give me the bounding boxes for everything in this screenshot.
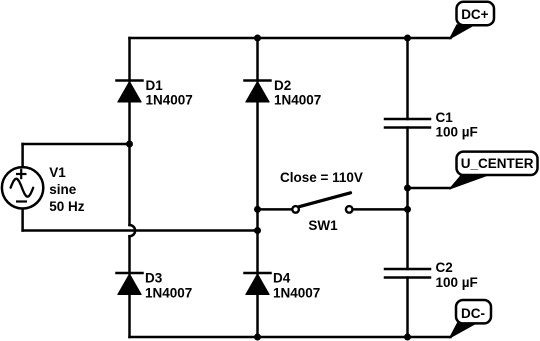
svg-text:50 Hz: 50 Hz: [49, 199, 85, 214]
svg-text:U_CENTER: U_CENTER: [461, 156, 534, 171]
svg-text:Close = 110V: Close = 110V: [280, 170, 363, 185]
svg-text:D4: D4: [273, 271, 291, 286]
svg-text:D3: D3: [145, 271, 163, 286]
svg-text:D2: D2: [274, 78, 291, 93]
svg-text:100 µF: 100 µF: [436, 275, 478, 290]
svg-text:SW1: SW1: [308, 218, 338, 233]
svg-text:DC+: DC+: [461, 7, 488, 22]
svg-text:sine: sine: [49, 182, 77, 197]
svg-text:1N4007: 1N4007: [274, 93, 321, 108]
svg-text:C2: C2: [436, 260, 453, 275]
svg-text:1N4007: 1N4007: [146, 93, 193, 108]
svg-text:V1: V1: [49, 165, 66, 180]
svg-text:100 µF: 100 µF: [436, 124, 478, 139]
svg-text:1N4007: 1N4007: [145, 285, 192, 300]
svg-text:D1: D1: [146, 78, 164, 93]
svg-text:DC-: DC-: [461, 306, 485, 321]
svg-text:C1: C1: [436, 110, 454, 125]
svg-text:1N4007: 1N4007: [273, 285, 320, 300]
